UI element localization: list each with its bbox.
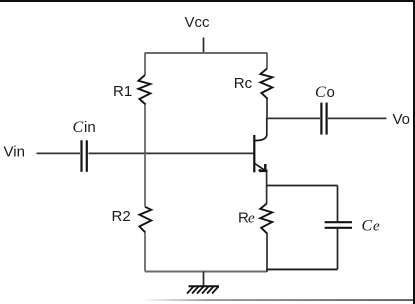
- svg-text:Vcc: Vcc: [185, 14, 211, 31]
- svg-text:Vin: Vin: [4, 143, 25, 160]
- wire Ce bottom lead: [337, 229, 339, 269]
- wire R1 top lead: [144, 53, 146, 76]
- wire R2 bottom lead: [144, 233, 146, 272]
- wire base: [89, 152, 254, 154]
- wire emitter to Ce: [267, 185, 338, 187]
- capacitor Ce: [325, 222, 352, 228]
- svg-text:in: in: [84, 119, 96, 136]
- wire Rc top lead: [266, 53, 268, 69]
- wire Re bottom lead: [266, 234, 268, 272]
- transistor Q1: [254, 135, 267, 173]
- wire emitter drop: [266, 172, 268, 204]
- svg-text:Vo: Vo: [393, 111, 411, 128]
- ground: [187, 286, 219, 293]
- wire bottom rail: [145, 271, 267, 273]
- wire R2 top lead: [144, 153, 146, 207]
- resistor Rc: [260, 69, 272, 99]
- wire Re-Ce bottom: [267, 268, 338, 270]
- capacitor Cin: [82, 140, 87, 172]
- wire Co lead left: [267, 117, 320, 119]
- svg-text:e: e: [248, 211, 255, 227]
- svg-text:e: e: [373, 219, 380, 235]
- svg-text:C: C: [315, 84, 326, 101]
- capacitor Co: [321, 103, 326, 135]
- wire Co lead right: [328, 117, 387, 119]
- wire Ce top lead: [337, 186, 339, 222]
- wire Vcc stub: [203, 38, 205, 54]
- wire Vin lead: [37, 152, 81, 154]
- svg-text:C: C: [73, 119, 84, 136]
- svg-text:o: o: [327, 84, 335, 101]
- resistor R2: [139, 207, 151, 233]
- wire top rail: [145, 52, 267, 54]
- svg-text:R2: R2: [112, 208, 131, 225]
- svg-text:Rc: Rc: [234, 75, 253, 92]
- resistor R1: [138, 75, 150, 105]
- wire R1 bottom lead: [144, 105, 146, 154]
- svg-text:C: C: [362, 218, 373, 235]
- wire Rc bottom lead: [266, 99, 268, 118]
- wire collector drop: [266, 118, 268, 135]
- resistor Re: [260, 204, 272, 234]
- svg-text:R1: R1: [113, 83, 132, 100]
- wire ground stub: [203, 272, 205, 287]
